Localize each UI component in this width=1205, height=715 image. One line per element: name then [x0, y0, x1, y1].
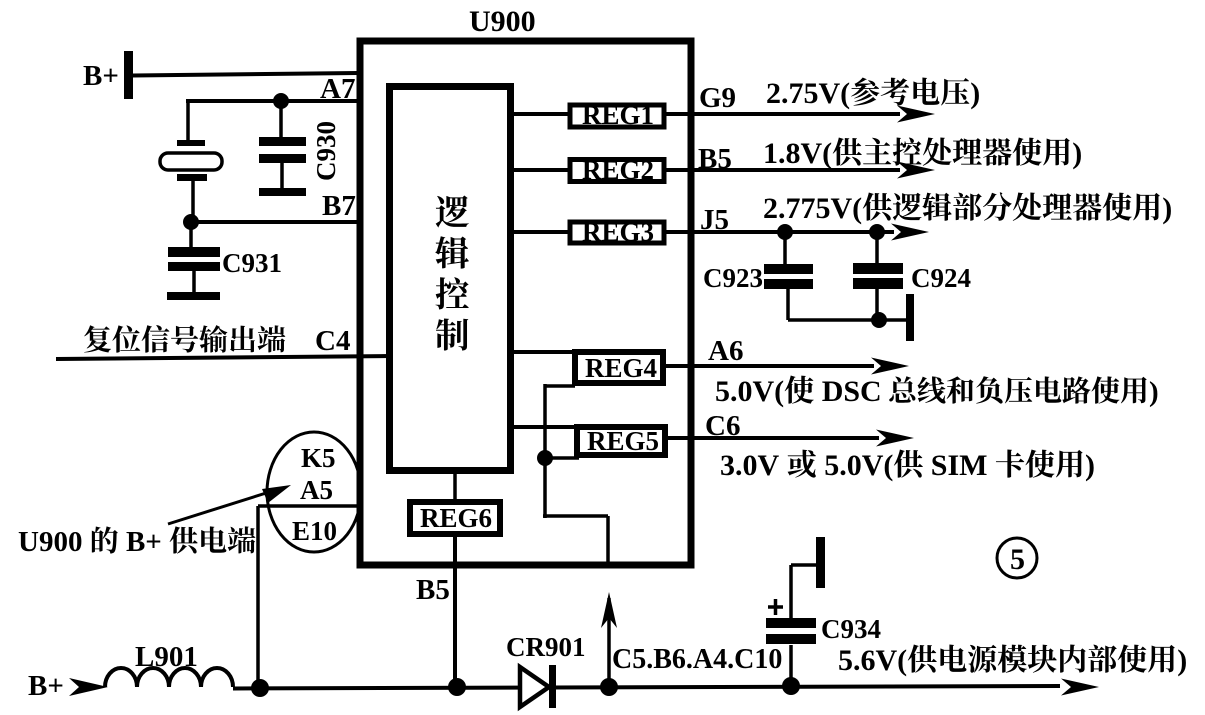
capacitor C934 stem top [791, 565, 817, 618]
svg-text:): ) [970, 77, 980, 110]
wire node to pin A7/B+ branch [186, 99, 358, 141]
svg-text:): ) [1149, 376, 1159, 408]
svg-text:REG1: REG1 [582, 100, 654, 130]
svg-text:B5: B5 [698, 143, 732, 175]
ground bar C934 [816, 537, 825, 588]
svg-text:5.0V(: 5.0V( [715, 375, 784, 408]
capacitor C924 stem2 [875, 289, 879, 320]
wire REG4 output A6 [663, 364, 874, 368]
capacitor C934 plus sign [768, 599, 783, 615]
text 5.6V output [838, 644, 1187, 677]
ground bar C923/C924 [906, 294, 914, 341]
pin label G9 [699, 82, 736, 114]
capacitor C934 plate2 [766, 618, 816, 628]
svg-text:C930: C930 [311, 121, 341, 181]
battery terminal bar B+ [124, 51, 133, 99]
wire arrow to C5.B6.A4.C10 pin [607, 598, 611, 687]
svg-text:C924: C924 [911, 263, 971, 293]
logic-control text 逻辑控制 [435, 195, 469, 350]
regulator REG4 label [585, 353, 657, 383]
wire reset signal C4 [56, 356, 390, 359]
capacitor C923 stem2 [786, 289, 790, 320]
capacitor C924 label [911, 263, 971, 293]
regulator REG2 label [582, 155, 654, 185]
svg-text:DSC: DSC [814, 375, 882, 408]
regulator REG5 box [577, 427, 665, 455]
node junction J5/C924 [869, 224, 885, 240]
capacitor C930 stem [280, 163, 284, 189]
svg-text:2.75V(: 2.75V( [766, 77, 850, 110]
svg-text:B+: B+ [28, 670, 64, 702]
svg-text:5: 5 [1010, 543, 1025, 576]
pin label A6 [708, 335, 743, 367]
wire REG4 bottom stub [545, 384, 575, 518]
wire logic to REG3 [511, 230, 570, 234]
capacitor C934 label [821, 614, 881, 644]
wire REG2 output B5 [664, 168, 900, 172]
svg-text:C6: C6 [705, 410, 740, 442]
diode CR901 [520, 665, 556, 708]
text B+ (bottom) [28, 670, 64, 702]
node junction rail/C5 pin [600, 678, 618, 696]
wire logic to REG1 [511, 112, 570, 116]
arrow rail 5.6V output [1061, 679, 1099, 696]
svg-text:U900: U900 [469, 5, 536, 38]
svg-text:): ) [1072, 137, 1082, 170]
wire B+ to pin A7 [133, 73, 358, 76]
wire logic to REG2 [511, 168, 570, 172]
capacitor C931 stem [192, 271, 196, 293]
arrow G9 output [897, 106, 935, 123]
annotation arrowhead [262, 485, 291, 503]
wire logic to REG6 [453, 470, 457, 503]
svg-text:CR901: CR901 [506, 632, 586, 662]
pin label B7 [322, 190, 356, 222]
capacitor C923 label [703, 263, 763, 293]
svg-text:C923: C923 [703, 263, 763, 293]
ground bar C930 [259, 188, 306, 196]
pin label C5.B6.A4.C10 [612, 644, 782, 675]
power rail B+ (top) label [83, 60, 119, 92]
node junction J5/C923 [777, 224, 793, 240]
svg-text:A6: A6 [708, 335, 743, 367]
figure number circled 5 [997, 538, 1037, 578]
capacitor C923 plate2 [764, 279, 813, 289]
svg-text:C934: C934 [821, 614, 881, 644]
svg-text:C931: C931 [222, 248, 282, 278]
wire to ground bar [879, 318, 907, 322]
svg-text:C5.B6.A4.C10: C5.B6.A4.C10 [612, 644, 782, 675]
capacitor C930 plate1 [259, 137, 306, 146]
wire stub to REG5 [545, 456, 579, 460]
wire crystal to node B7 [191, 181, 195, 222]
pin label A7 [320, 73, 355, 105]
regulator REG3 box [570, 222, 664, 243]
IC U900 label [469, 5, 536, 38]
text 2.775V output [763, 192, 1172, 225]
svg-text:1.8V(: 1.8V( [763, 137, 832, 170]
arrow J5 output [891, 224, 929, 241]
logic-control inner block [390, 87, 511, 471]
wire B7 to U900 [191, 220, 358, 224]
node junction B7/C931 [183, 214, 199, 230]
regulator REG3 label [582, 217, 654, 247]
text 2.75V output [766, 77, 980, 110]
regulator REG1 box [570, 105, 664, 127]
text 3.0V output [720, 449, 1095, 482]
pin label A5 [300, 475, 333, 505]
svg-text:REG2: REG2 [582, 155, 654, 185]
svg-text:K5: K5 [301, 443, 336, 473]
wire bottom rail [233, 686, 1060, 689]
svg-text:B+: B+ [119, 526, 169, 558]
capacitor C924 plate1 [853, 263, 903, 274]
capacitor C931 plate2 [168, 262, 220, 271]
ground bar C931 [167, 292, 220, 300]
text 1.8V output [763, 137, 1082, 170]
svg-text:E10: E10 [292, 516, 337, 546]
svg-text:3.0V: 3.0V [720, 449, 787, 482]
svg-text:REG5: REG5 [587, 426, 659, 456]
svg-text:): ) [1162, 192, 1172, 225]
pin label E10 [292, 516, 337, 546]
svg-text:B+: B+ [83, 60, 119, 92]
capacitor C931 label [222, 248, 282, 278]
capacitor C923 plate1 [764, 264, 813, 274]
capacitor C924 stem [875, 232, 879, 264]
regulator REG2 box [570, 160, 664, 182]
wire logic to REG5 [511, 425, 577, 429]
pin label C6 [705, 410, 740, 442]
svg-text:5.6V(: 5.6V( [838, 644, 907, 677]
regulator REG4 box [575, 352, 663, 383]
node junction rail/C934 [782, 677, 800, 695]
svg-text:G9: G9 [699, 82, 736, 114]
svg-text:5.0V(: 5.0V( [817, 449, 894, 482]
text 5.0V output [715, 375, 1159, 408]
pin label J5 [700, 204, 729, 236]
svg-text:): ) [1177, 644, 1187, 677]
pin label K5 [301, 443, 336, 473]
capacitor C934 stem bottom [789, 645, 793, 687]
wire REG1 output G9 [664, 112, 900, 116]
text reset signal output [84, 325, 285, 353]
crystal X901 top plate [177, 140, 205, 146]
svg-text:J5: J5 [700, 204, 729, 236]
svg-text:REG3: REG3 [582, 217, 654, 247]
capacitor C934 plate1 [766, 634, 816, 644]
wire logic to REG4 [511, 350, 575, 354]
capacitor C923 stem [783, 232, 787, 265]
capacitor C931 stem top [189, 222, 193, 248]
node junction C930/B+ branch [273, 93, 289, 109]
crystal X901 body [160, 153, 222, 170]
arrow up to C5 pin [601, 592, 617, 628]
pin label C4 [315, 325, 350, 357]
annotation arrow line [168, 488, 282, 524]
capacitor C924 plate2 [853, 278, 903, 289]
wire C930 stem [279, 101, 283, 138]
arrow B+ into inductor [69, 678, 108, 696]
pin group ellipse [267, 432, 361, 552]
diode CR901 label [506, 632, 586, 662]
arrow A6 output [871, 358, 909, 375]
regulator REG5 label [587, 426, 659, 456]
svg-text:A5: A5 [300, 475, 333, 505]
svg-text:B7: B7 [322, 190, 356, 222]
wire to pin C5.B6.A4.C10 [543, 516, 608, 566]
arrow C6 output [876, 430, 914, 447]
node junction REG5 enable [537, 450, 553, 466]
wire REG6 to B+ rail pin B5 [453, 534, 457, 688]
pin label B5 [698, 143, 732, 175]
svg-text:2.775V(: 2.775V( [763, 192, 862, 225]
node junction ground C923/C924 [871, 312, 887, 328]
wire REG3 output J5 [664, 230, 894, 234]
svg-text:C4: C4 [315, 325, 350, 357]
svg-text:U900: U900 [18, 526, 90, 558]
svg-text:SIM: SIM [923, 449, 995, 482]
wire REG5 output C6 [665, 436, 879, 440]
inductor L901 [105, 668, 233, 687]
crystal X901 bottom plate [177, 174, 207, 181]
wire B+ supply to U900 [258, 506, 360, 688]
capacitor C930 label [311, 121, 341, 181]
svg-text:REG6: REG6 [420, 503, 492, 533]
svg-text:B5: B5 [416, 574, 450, 606]
regulator REG1 label [582, 100, 654, 130]
pin label B5 (bottom) [416, 574, 450, 606]
capacitor C930 plate2 [259, 154, 306, 163]
regulator REG6 box [410, 502, 500, 534]
capacitor C931 plate1 [168, 247, 220, 257]
svg-text:REG4: REG4 [585, 353, 657, 383]
node junction rail/B5 [448, 678, 466, 696]
svg-text:L901: L901 [135, 641, 198, 673]
node junction rail/B+ supply [251, 679, 269, 697]
text U900 B+ supply note [18, 526, 255, 558]
regulator REG6 label [420, 503, 492, 533]
inductor L901 label [135, 641, 198, 673]
wire C923 to ground node [788, 318, 879, 322]
arrow B5 output [897, 162, 935, 179]
svg-text:): ) [1085, 449, 1095, 482]
IC U900 outline [360, 41, 691, 565]
